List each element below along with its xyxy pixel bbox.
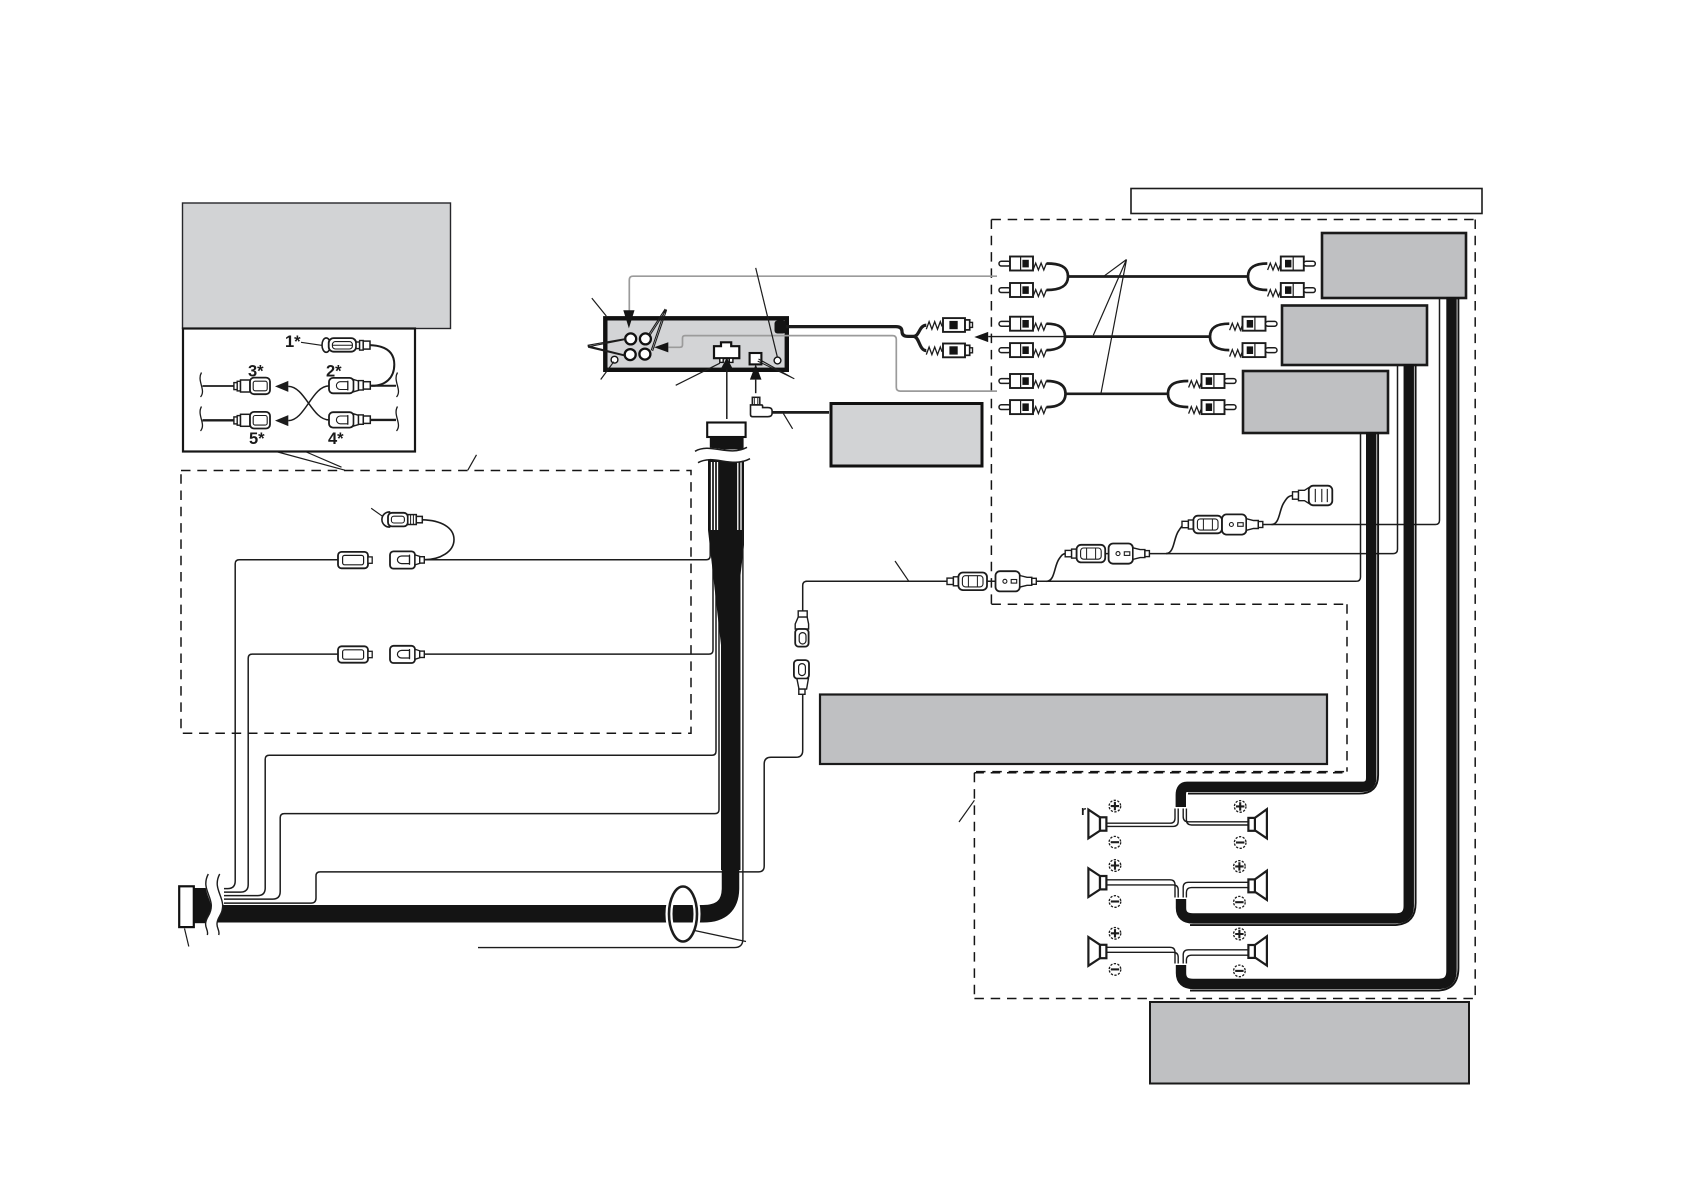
chain end female terminal	[1293, 486, 1333, 506]
plug 2* female disconnect	[329, 378, 370, 393]
chain 2 female disconnect	[1109, 544, 1150, 564]
dashed box D left leads area	[181, 471, 691, 734]
speaker cable row 1	[1181, 432, 1371, 807]
lead row2 wire left down to power cord	[224, 560, 338, 889]
lead row2 wire right to harness	[424, 463, 710, 560]
leader to top-left corner of unit	[592, 298, 607, 316]
pair 3 left plug upper	[999, 374, 1046, 388]
antenna plug lower	[926, 344, 972, 358]
S-wire chain3 to chain2	[1047, 554, 1067, 582]
chain line 2	[1065, 553, 1393, 555]
callout tail from sub-diagram box	[278, 452, 345, 470]
wavy break on ribbon	[695, 447, 750, 462]
label box top-right	[1131, 189, 1482, 214]
circled section marker	[669, 887, 697, 942]
RCA output jacks 2x2	[625, 333, 651, 360]
small jack right	[774, 357, 781, 364]
crossing wire arrow1 to plug4	[288, 386, 329, 420]
right subwoofer speaker	[1248, 936, 1267, 965]
lead row3 male bullet	[390, 646, 424, 663]
lead row2 female disconnect	[338, 552, 372, 568]
leader wedge from remote port	[758, 359, 795, 379]
thin wire from amp box 2 to chain line 2	[1393, 364, 1397, 554]
leader to harness port	[676, 363, 720, 385]
pair 3 junction curves	[1047, 381, 1066, 407]
chain 2 male spade	[1065, 545, 1105, 563]
tail line to pair 2	[988, 336, 1065, 338]
pair 1 junction curves	[1047, 264, 1069, 291]
leader to box C	[959, 800, 974, 822]
chain 3 female disconnect	[996, 571, 1037, 591]
pair 1 right plug upper	[1268, 257, 1316, 271]
thin wire from amp box 1 to chain line 1	[1435, 297, 1439, 525]
gray line front output to pair 3	[669, 336, 998, 392]
left rear speaker	[1088, 868, 1106, 897]
wire right of 4* with break	[370, 419, 396, 421]
pair 3 right curves	[1168, 381, 1188, 407]
left front speaker	[1088, 810, 1106, 839]
plug 4* female disconnect	[329, 412, 370, 427]
row 1 speaker wires	[1106, 809, 1248, 827]
chain 1 female disconnect	[1222, 514, 1263, 534]
antenna jack connector	[775, 321, 787, 334]
wire A mute lead	[224, 463, 716, 896]
leader to small left jack	[601, 362, 614, 380]
chain line 3	[806, 580, 1357, 582]
callout triangle to three cables	[1093, 260, 1126, 394]
left subwoofer speaker	[1088, 937, 1106, 966]
wire arc pin plug to lead node	[422, 520, 454, 560]
power cord connector	[179, 886, 194, 927]
arrow at front output jacks	[654, 342, 668, 352]
pair 1 right curves	[1248, 264, 1267, 291]
row3 polarity marks	[1109, 928, 1245, 977]
pair 1 left plug upper	[999, 257, 1046, 271]
pair 3 left plug lower	[999, 400, 1046, 414]
leader to chain wire	[895, 561, 909, 581]
lead row2 male bullet	[390, 551, 424, 568]
dashed box A amplifier area	[181, 220, 1475, 999]
harness connector port	[714, 342, 739, 358]
lead row3 wire left down to power cord	[224, 654, 338, 892]
right front speaker	[1248, 809, 1267, 838]
wavy break on power cord bundle	[206, 874, 223, 936]
chain 1 male spade	[1182, 516, 1222, 534]
svg-text:4*: 4*	[328, 430, 344, 448]
crossing wire arrow2 to plug2	[288, 386, 329, 421]
pair 2 right curves	[1210, 324, 1229, 350]
chain 3 male spade	[947, 573, 987, 591]
ribbon neck	[710, 437, 744, 450]
plug 3* female disconnect	[234, 378, 270, 395]
leader to pin plug	[371, 508, 383, 517]
pair 2 cable	[1065, 335, 1210, 338]
leader for plug 1*	[301, 342, 322, 345]
dashed box B subwoofer note area	[1346, 604, 1348, 771]
bullet male connector	[795, 611, 808, 647]
pair 3 right plug upper	[1189, 374, 1236, 388]
pin terminal plug	[382, 512, 422, 527]
pair 2 left plug lower	[999, 343, 1046, 357]
amp box 3	[1243, 371, 1388, 433]
arrow into 5*	[275, 415, 288, 426]
pair 2 right plug upper	[1230, 317, 1277, 331]
gray note box top-left	[183, 203, 451, 329]
svg-text:5*: 5*	[249, 430, 265, 448]
left lead wire of 3* with break	[203, 385, 234, 387]
lead row3 female disconnect	[338, 646, 372, 662]
connector tail lead	[185, 929, 189, 947]
row 2 speaker wires	[1106, 880, 1247, 898]
fork leader to left jacks	[588, 339, 627, 357]
pair 2 left plug upper	[999, 317, 1046, 331]
amp box 1	[1322, 233, 1466, 298]
small jack left	[611, 356, 618, 363]
mini jack gray box	[831, 404, 982, 467]
cord to mini jack box	[772, 411, 829, 414]
thin wire from amp box 3 to chain line 3	[1356, 432, 1360, 581]
harness ribbon upper striped section	[708, 456, 744, 530]
pair 3 right plug lower	[1189, 400, 1236, 414]
left lead wire of 5* with break	[203, 419, 234, 421]
wire right of 2* with break	[370, 385, 396, 387]
arrow into 3*	[275, 381, 288, 392]
pair 1 cable	[1068, 275, 1248, 278]
wired remote input port	[750, 353, 762, 364]
row1 polarity marks	[1109, 800, 1246, 848]
arrow into harness port	[721, 358, 733, 370]
chain line 1	[1182, 524, 1435, 526]
speaker cable row 2	[1181, 364, 1409, 918]
S-wire chain2 to chain1	[1166, 525, 1186, 554]
thin lead right of ribbon down to corner	[478, 463, 743, 948]
antenna wire	[786, 327, 914, 337]
wire arc from plug 1* to plug 2* lead	[370, 345, 394, 386]
ribbon connector cap	[707, 423, 745, 438]
wire from chain line 3 down to bullet connectors	[803, 581, 947, 611]
arrow into remote port	[750, 364, 762, 379]
plug 5* female disconnect	[234, 412, 270, 429]
RCA adapter sub-diagram white box	[183, 329, 415, 452]
dashed box C speaker area	[974, 772, 1347, 774]
plug 1* RCA pin plug	[322, 338, 370, 352]
S-wire chain1 to end terminal	[1272, 496, 1294, 525]
harness ribbon lower bar	[721, 528, 741, 870]
wire B lead	[224, 463, 719, 899]
leader under cord	[783, 414, 792, 429]
right rear speaker	[1248, 871, 1267, 900]
pair 1 left plug lower	[999, 283, 1046, 297]
long leader to small right jack	[756, 268, 778, 357]
head unit rear panel	[605, 318, 787, 370]
wire from bullet connectors jog and across to left leads	[224, 694, 803, 903]
svg-text:1*: 1*	[285, 333, 301, 351]
bullet female connector	[794, 660, 809, 694]
power cord thick run and elbow	[194, 860, 731, 914]
pair 2 junction curves	[1047, 324, 1066, 350]
amp box 2	[1282, 306, 1427, 366]
row 3 speaker wires	[1106, 947, 1248, 963]
lead row3 wire right to harness	[424, 463, 713, 654]
fork leader to right jacks	[648, 309, 666, 351]
row2 polarity marks	[1109, 860, 1245, 908]
pair 2 right plug lower	[1230, 343, 1277, 357]
speaker cable row 3	[1181, 297, 1452, 984]
leader to box D	[468, 455, 477, 470]
svg-text:r: r	[1081, 803, 1086, 818]
pair 3 cable	[1066, 392, 1169, 395]
black bundle at connector	[194, 888, 212, 923]
leader from circled marker	[695, 931, 747, 942]
antenna plug upper	[926, 318, 972, 332]
arrow into rear output jacks	[623, 310, 634, 328]
gray line rear output to pair 1	[629, 276, 997, 310]
pair 1 right plug lower	[1268, 283, 1316, 297]
arrow into antenna plugs	[974, 332, 988, 342]
right angle plug	[751, 397, 773, 416]
